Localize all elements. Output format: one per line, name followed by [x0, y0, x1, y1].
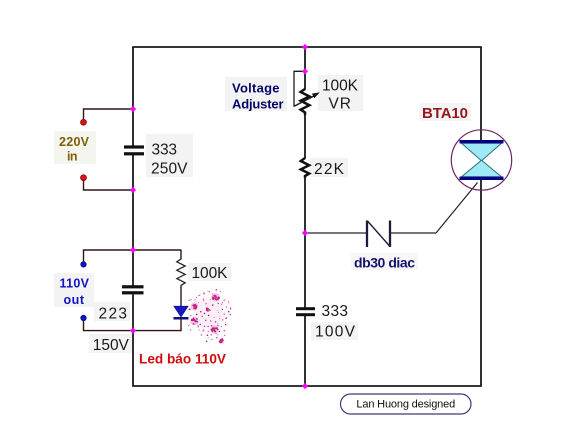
wire: triac gate diagonal	[436, 183, 478, 234]
diac D2 db30 left electrode bar	[366, 221, 368, 248]
svg-text:333: 333	[322, 303, 349, 320]
triac U1 MT1 bar	[460, 177, 504, 180]
resistor R2 22K zigzag body	[301, 158, 309, 178]
potentiometer VR1 wiper bracket	[294, 71, 305, 106]
wire: left bus middle segment	[132, 155, 134, 286]
LED glow sparkle	[188, 289, 231, 344]
label background tint: 100V	[311, 322, 358, 340]
label background tint: BTA10	[419, 103, 471, 121]
wire: middle bus below C3	[304, 316, 306, 387]
terminal: 220V upper (red)	[81, 119, 87, 125]
node: junction 110V lower on left bus	[130, 328, 136, 334]
svg-text:in: in	[67, 150, 78, 164]
svg-text:333: 333	[152, 142, 178, 159]
label: 223 value	[99, 305, 128, 322]
svg-text:VR: VR	[329, 95, 352, 112]
triac U1 lower triangle	[462, 160, 502, 177]
label background tint: db30 diac	[351, 253, 418, 270]
node: junction 220V lower on left bus	[130, 187, 136, 193]
label background tint: Voltage Adjuster	[225, 77, 287, 111]
svg-text:BTA10: BTA10	[422, 105, 468, 122]
wire: LED branch middle lead	[180, 287, 182, 307]
wire: left bus upper segment	[132, 47, 134, 146]
wire: 110V output lower lead	[84, 319, 182, 331]
wire: 220V input lower lead	[84, 179, 134, 190]
terminal: 110V lower (blue)	[81, 315, 86, 320]
label background tint: 100K VR	[318, 75, 363, 111]
label: 220V in	[59, 135, 90, 164]
label: 150V value	[93, 337, 130, 354]
label background tint: 22K	[310, 158, 348, 177]
triac U1 upper triangle	[462, 143, 502, 161]
svg-text:223: 223	[99, 305, 128, 322]
triac U1 MT2 bar	[460, 140, 504, 143]
wire: top bus	[132, 46, 482, 48]
svg-text:110V: 110V	[60, 277, 90, 291]
wire: middle bus between VR and 22K	[304, 115, 306, 159]
LED D1 triangle	[174, 306, 188, 317]
node: junction top of middle bus	[302, 44, 308, 50]
capacitor C2 223 150V plates	[122, 285, 144, 294]
wire: 110V output upper lead	[84, 250, 182, 263]
label: 333 100V value	[315, 303, 356, 341]
node: junction diac branch on middle bus	[302, 230, 308, 236]
label: db30 diac	[354, 255, 415, 271]
potentiometer VR1 wiper arrow	[294, 92, 320, 106]
wire: right bus upper segment (to triac MT2)	[480, 47, 482, 141]
wire: diac branch from middle bus	[305, 232, 367, 234]
capacitor C1 333 250V plates	[124, 145, 144, 155]
capacitor C3 333 100V plates	[296, 307, 315, 316]
svg-text:db30 diac: db30 diac	[354, 255, 415, 271]
wire: left bus lower segment	[132, 295, 134, 387]
wire: diac to gate horizontal	[390, 232, 436, 234]
wire: 220V input upper lead	[84, 109, 134, 121]
potentiometer VR1 100K zigzag body	[301, 89, 310, 115]
label: 100K (led branch) value	[192, 265, 229, 282]
label background tint: 333 250V	[146, 134, 193, 177]
wire: middle bus between 22K and C3	[304, 178, 306, 308]
svg-text:100V: 100V	[315, 324, 356, 341]
triac U1 BTA10 circle	[451, 130, 511, 190]
svg-text:220V: 220V	[59, 135, 90, 149]
node: junction 220V upper on left bus	[130, 106, 136, 112]
svg-text:Voltage: Voltage	[232, 81, 280, 96]
svg-text:250V: 250V	[151, 161, 188, 178]
label: 333 250V value	[151, 142, 188, 178]
label: 100K VR value	[322, 78, 359, 113]
wire: LED branch lower lead	[180, 319, 182, 331]
terminal: 220V lower (red)	[81, 175, 87, 181]
wire: LED branch upper lead	[180, 250, 182, 260]
label background tint: 220V in	[54, 131, 96, 164]
svg-text:100K: 100K	[192, 265, 229, 282]
label background tint: 110V out	[54, 273, 94, 307]
svg-text:out: out	[64, 293, 85, 307]
wire: bottom bus	[132, 385, 482, 387]
wire: middle bus top segment	[304, 47, 306, 90]
designer stamp box	[341, 394, 472, 414]
wire: right bus lower segment (from triac MT1)	[480, 179, 482, 386]
svg-text:100K: 100K	[322, 78, 359, 95]
svg-text:150V: 150V	[93, 337, 130, 354]
label: BTA10	[422, 105, 468, 122]
LED D1 cathode bar	[174, 317, 189, 320]
svg-text:Adjuster: Adjuster	[232, 96, 284, 111]
label: Voltage Adjuster	[232, 81, 284, 112]
node: junction 110V upper on left bus	[130, 247, 136, 253]
node: junction bottom of middle bus	[302, 383, 308, 389]
resistor R3 100K zigzag body	[177, 259, 185, 287]
label background tint: 100K (led)	[188, 263, 231, 281]
terminal: 110V upper (blue)	[81, 262, 86, 267]
svg-text:22K: 22K	[314, 161, 345, 178]
svg-text:Lan Huong designed: Lan Huong designed	[356, 399, 455, 411]
label background tint: 223	[94, 302, 130, 321]
diac D2 db30 right electrode bar	[389, 221, 391, 248]
label: 22K value	[314, 161, 345, 178]
label: Led bao 110V	[139, 352, 226, 367]
svg-text:Led báo 110V: Led báo 110V	[139, 352, 226, 367]
label: 110V out	[60, 277, 90, 308]
diac D2 db30 diagonal	[368, 221, 391, 247]
label background tint: 150V	[89, 334, 133, 353]
node: junction VR wiper tap	[302, 68, 308, 74]
